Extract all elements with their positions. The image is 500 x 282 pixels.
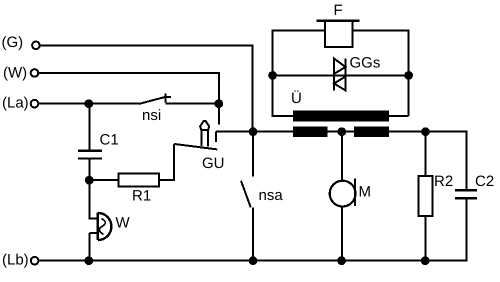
switch GU blade [174,144,218,150]
resistor R1 [119,174,159,187]
wire (W) horizontal [39,72,220,74]
terminal (W) circle [31,69,39,77]
node diac right [404,71,413,80]
motor M circle [330,181,356,207]
wire nsa lower [252,208,254,261]
switch nsi contact hook [165,96,171,98]
svg-text:Ü: Ü [291,90,302,107]
capacitor C2 [455,190,477,198]
wire La after nsi [165,103,219,105]
terminal (La) circle [31,100,39,108]
node secondary center tap [337,127,346,136]
svg-text:nsa: nsa [259,187,284,204]
svg-text:R2: R2 [434,173,453,190]
wire fuse loop right vertical [408,31,410,117]
terminal (Lb) circle [31,257,39,265]
svg-text:(La): (La) [2,95,29,112]
resistor R2 [419,176,433,216]
diac GGs symbol [334,59,346,91]
transformer secondary winding left [293,126,327,137]
svg-text:M: M [359,184,372,201]
node mid bus / G line / nsa [249,127,258,136]
wire (La) to nsi [39,103,140,105]
node diac left [268,71,277,80]
switch GU actuator arrow [200,121,209,146]
svg-text:(Lb): (Lb) [2,252,29,269]
transformer primary winding [293,110,389,121]
wire R2 upper [425,132,427,176]
switch nsi blade [139,97,167,104]
terminal (G) circle [32,42,40,50]
wire C1 to R1 node [88,159,90,184]
switch nsi contact tick [164,94,166,103]
switch nsa blade [241,181,251,208]
wire (G) horizontal [40,44,253,46]
node La/W junction [214,99,223,108]
wire primary right [389,115,408,117]
wire diac row [273,74,409,76]
fuse F top bar [317,20,360,22]
wire nsa upper [252,132,254,177]
node bottom nsa column [249,256,258,265]
wire fuse loop left vertical [272,31,274,118]
capacitor C1 [78,151,102,159]
svg-text:C2: C2 [475,173,494,190]
node bottom R2 column [421,256,430,265]
buzzer W symbol [89,213,111,241]
fuse F body [325,21,352,47]
wire motor upper [341,132,343,180]
transformer secondary winding right [354,126,389,137]
wire (G) vertical down to mid bus [252,44,254,131]
wire fuse loop top left [272,30,325,32]
svg-text:F: F [334,2,343,19]
wire motor lower [341,206,343,260]
wire node to R1 [89,179,118,181]
switch GU upper contact [218,104,220,125]
wire primary left [273,115,294,117]
switch GU lower contact [215,132,217,142]
wire secondary right bus [389,131,466,133]
svg-text:nsi: nsi [142,107,161,124]
svg-text:R1: R1 [132,188,151,205]
svg-text:GGs: GGs [350,54,381,71]
wire R1 to GU pivot [159,144,174,180]
svg-text:W: W [116,215,131,232]
wire C2 lower [465,199,467,262]
svg-text:(G): (G) [2,34,24,51]
node C1 column on La wire [84,99,93,108]
wire bottom bus [39,260,468,262]
wire fuse loop top right [352,30,409,32]
wire R2 lower [425,216,427,261]
svg-text:GU: GU [202,155,225,172]
svg-text:(W): (W) [3,65,27,82]
motor M brush bar [354,179,356,207]
wire (W) vertical down to La junction [218,72,220,104]
svg-text:C1: C1 [100,132,119,149]
wire mid bus [216,131,293,133]
node bottom motor column [337,256,346,265]
node R1 tap [85,176,94,185]
wire buzzer to bottom bus [88,233,90,261]
node R2 top [421,127,430,136]
node bottom buzzer column [84,256,93,265]
wire node to buzzer W [88,180,90,219]
wire C1 column upper [88,104,90,151]
wire C2 upper [465,131,467,190]
wire secondary center [328,131,355,133]
